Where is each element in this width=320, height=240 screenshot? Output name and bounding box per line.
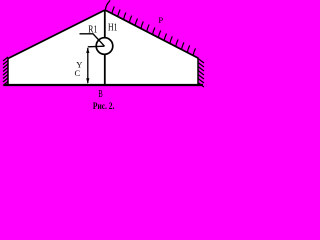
right slope hatch ticks [105,0,195,56]
tent interior (white region between slopes, walls and floor) [8,10,198,85]
axis wire upper (apex to ball) [104,10,106,38]
R1 leader line (underline + diagonal to ball centre) [80,34,105,46]
right slope [105,10,198,58]
right wall hatching [198,59,204,88]
svg-text:Р: Р [158,15,163,25]
dimension line Yc [87,48,89,83]
ball (circle) [96,38,113,55]
left slope [8,10,105,59]
svg-text:C: C [75,68,81,78]
svg-text:H1: H1 [108,22,118,33]
svg-text:Рис. 2.: Рис. 2. [93,102,115,112]
dimension arrowhead top [86,47,89,53]
right wall [197,58,199,86]
dimension arrowhead bottom [86,78,89,84]
radius line from centre to dimension [88,45,105,48]
floor line B [4,84,203,86]
svg-text:В: В [98,89,103,100]
left wall [7,58,9,86]
axis wire lower (ball to floor) [104,54,106,85]
svg-text:R1: R1 [88,24,97,35]
left wall hatching [3,57,8,86]
